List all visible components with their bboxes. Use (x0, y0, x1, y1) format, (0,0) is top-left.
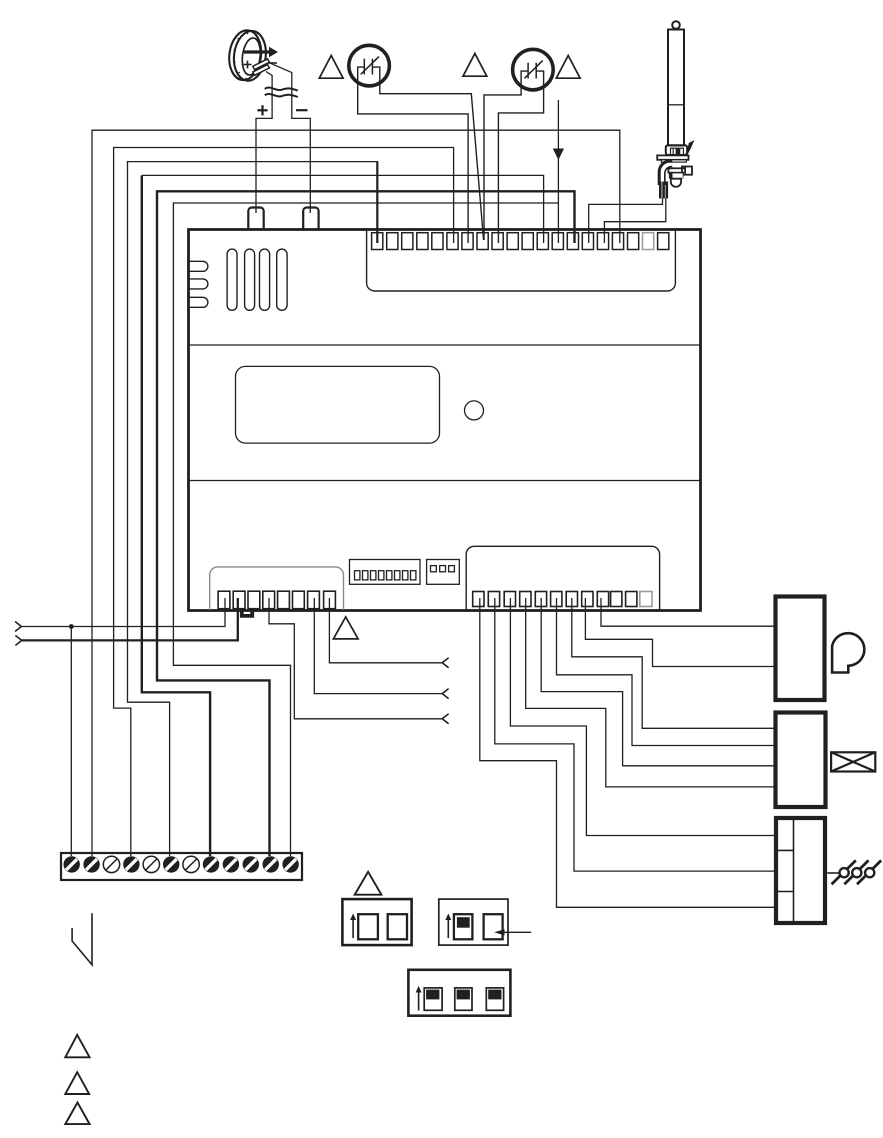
DIP switch bank (8) on controller (350, 560, 421, 585)
flow sensor ring (toroid) (226, 28, 268, 82)
warning triangle 3 (556, 56, 580, 79)
bottom-right terminals row (12) (473, 592, 652, 607)
warning triangle 1 (319, 56, 343, 79)
wire: right terminal 1 to heat source box (480, 598, 774, 907)
antenna top loop (672, 21, 680, 29)
controller display window (236, 366, 440, 443)
warning triangle 2 (463, 54, 487, 77)
warning triangle 5 (above DIP box 1) (355, 872, 382, 895)
wire: plug-in lead with down arrow into terminal 13 (557, 100, 559, 243)
wire: top terminal 13 bus to screw terminal 12 (173, 203, 558, 856)
pump symbol (832, 633, 864, 672)
wire: top terminal 17 to screw terminal 2 (92, 130, 620, 856)
wire: top terminal 1 drop (thick) (376, 162, 378, 243)
top terminal block (367, 229, 676, 291)
branch wire junction to screw terminal 1 (70, 627, 72, 857)
top terminals row (20) (372, 233, 669, 250)
screw terminals: filled with white slash / open with slash (63, 856, 298, 872)
sensor lead slashes (253, 59, 270, 75)
wire: top terminal 1 to screw terminal 6 (128, 162, 378, 856)
antenna cable (660, 182, 667, 199)
antenna wire to terminal 16 (604, 199, 665, 244)
polarity marks on ring (244, 61, 277, 69)
pump relay box (776, 597, 825, 701)
heat source box (776, 818, 825, 923)
cable break waves (265, 88, 298, 97)
mains input wire L with chevron (15, 598, 225, 631)
controller left edge tabs (190, 261, 208, 307)
valve symbol (crossed box) (831, 752, 875, 771)
wire: right terminal 8 to pump relay box (585, 598, 773, 667)
outside temperature sensor (circle with NTC symbol) (349, 45, 484, 243)
wire: right terminal 6 to valve box (557, 598, 774, 746)
wire: top terminal 12 to screw terminal 8 (142, 175, 544, 243)
bottom-left terminal block (210, 567, 344, 610)
antenna flange (657, 155, 688, 159)
wire: left terminal 7 to chevron out 2 (314, 598, 442, 694)
mixing valve relay box (776, 713, 826, 808)
flow temperature sensor (circle with NTC symbol) (484, 49, 553, 243)
wire: right terminal 5 to valve box (541, 598, 773, 766)
flow direction arrow (244, 50, 269, 53)
wire: left terminal 4 to chevron out 3 (269, 598, 442, 719)
plus label (257, 105, 267, 115)
warning triangle 6 (65, 1035, 89, 1057)
warning triangle 8 (65, 1103, 89, 1125)
wire: right terminal 2 to heat source box (495, 598, 774, 871)
controller button (465, 401, 484, 420)
wire: right terminal 4 to valve box (526, 598, 774, 787)
plug connector 1 (+) (248, 208, 263, 230)
controller vent slots (227, 249, 287, 310)
antenna flag (681, 140, 695, 162)
cable clamp below terminal 2 (242, 611, 252, 616)
antenna body (668, 30, 684, 146)
wire: right terminal 9 to pump relay box (601, 598, 774, 626)
antenna mount collar (666, 145, 687, 155)
three-phase switch symbol (827, 860, 881, 884)
DIP switch setting box 3 (408, 970, 510, 1016)
wire: top terminal 6 to screw terminal 4 (114, 148, 454, 857)
bottom-right terminal block (466, 546, 659, 610)
antenna wire to terminal 15 (589, 199, 663, 244)
small 3-switch block on controller (427, 560, 460, 585)
DIP switch setting box 1 (342, 899, 411, 945)
wire: top terminal 14 to screw terminal 11 (thick) (157, 191, 575, 856)
antenna elbow fitting (659, 161, 672, 185)
wire: right terminal 7 to valve box (572, 598, 774, 728)
warning triangle 7 (65, 1072, 89, 1094)
wire: right terminal 3 to heat source box (510, 598, 774, 836)
sensor lead wires to break (269, 63, 310, 213)
minus label (296, 109, 308, 111)
wire: left terminal 8 to chevron out 1 (329, 598, 442, 663)
bottom-left terminals row (8) (218, 591, 335, 609)
bent-wire hook symbol below strip (72, 913, 92, 965)
screw terminal strip (61, 853, 302, 880)
junction node on input wire (69, 624, 74, 629)
mains input wire N with chevron (thick) (15, 598, 237, 645)
controller main box (189, 230, 701, 611)
warning triangle 4 (below left terminals) (333, 617, 358, 639)
DIP switch setting box 2 (439, 899, 531, 945)
plug connector 2 (-) (303, 208, 318, 230)
